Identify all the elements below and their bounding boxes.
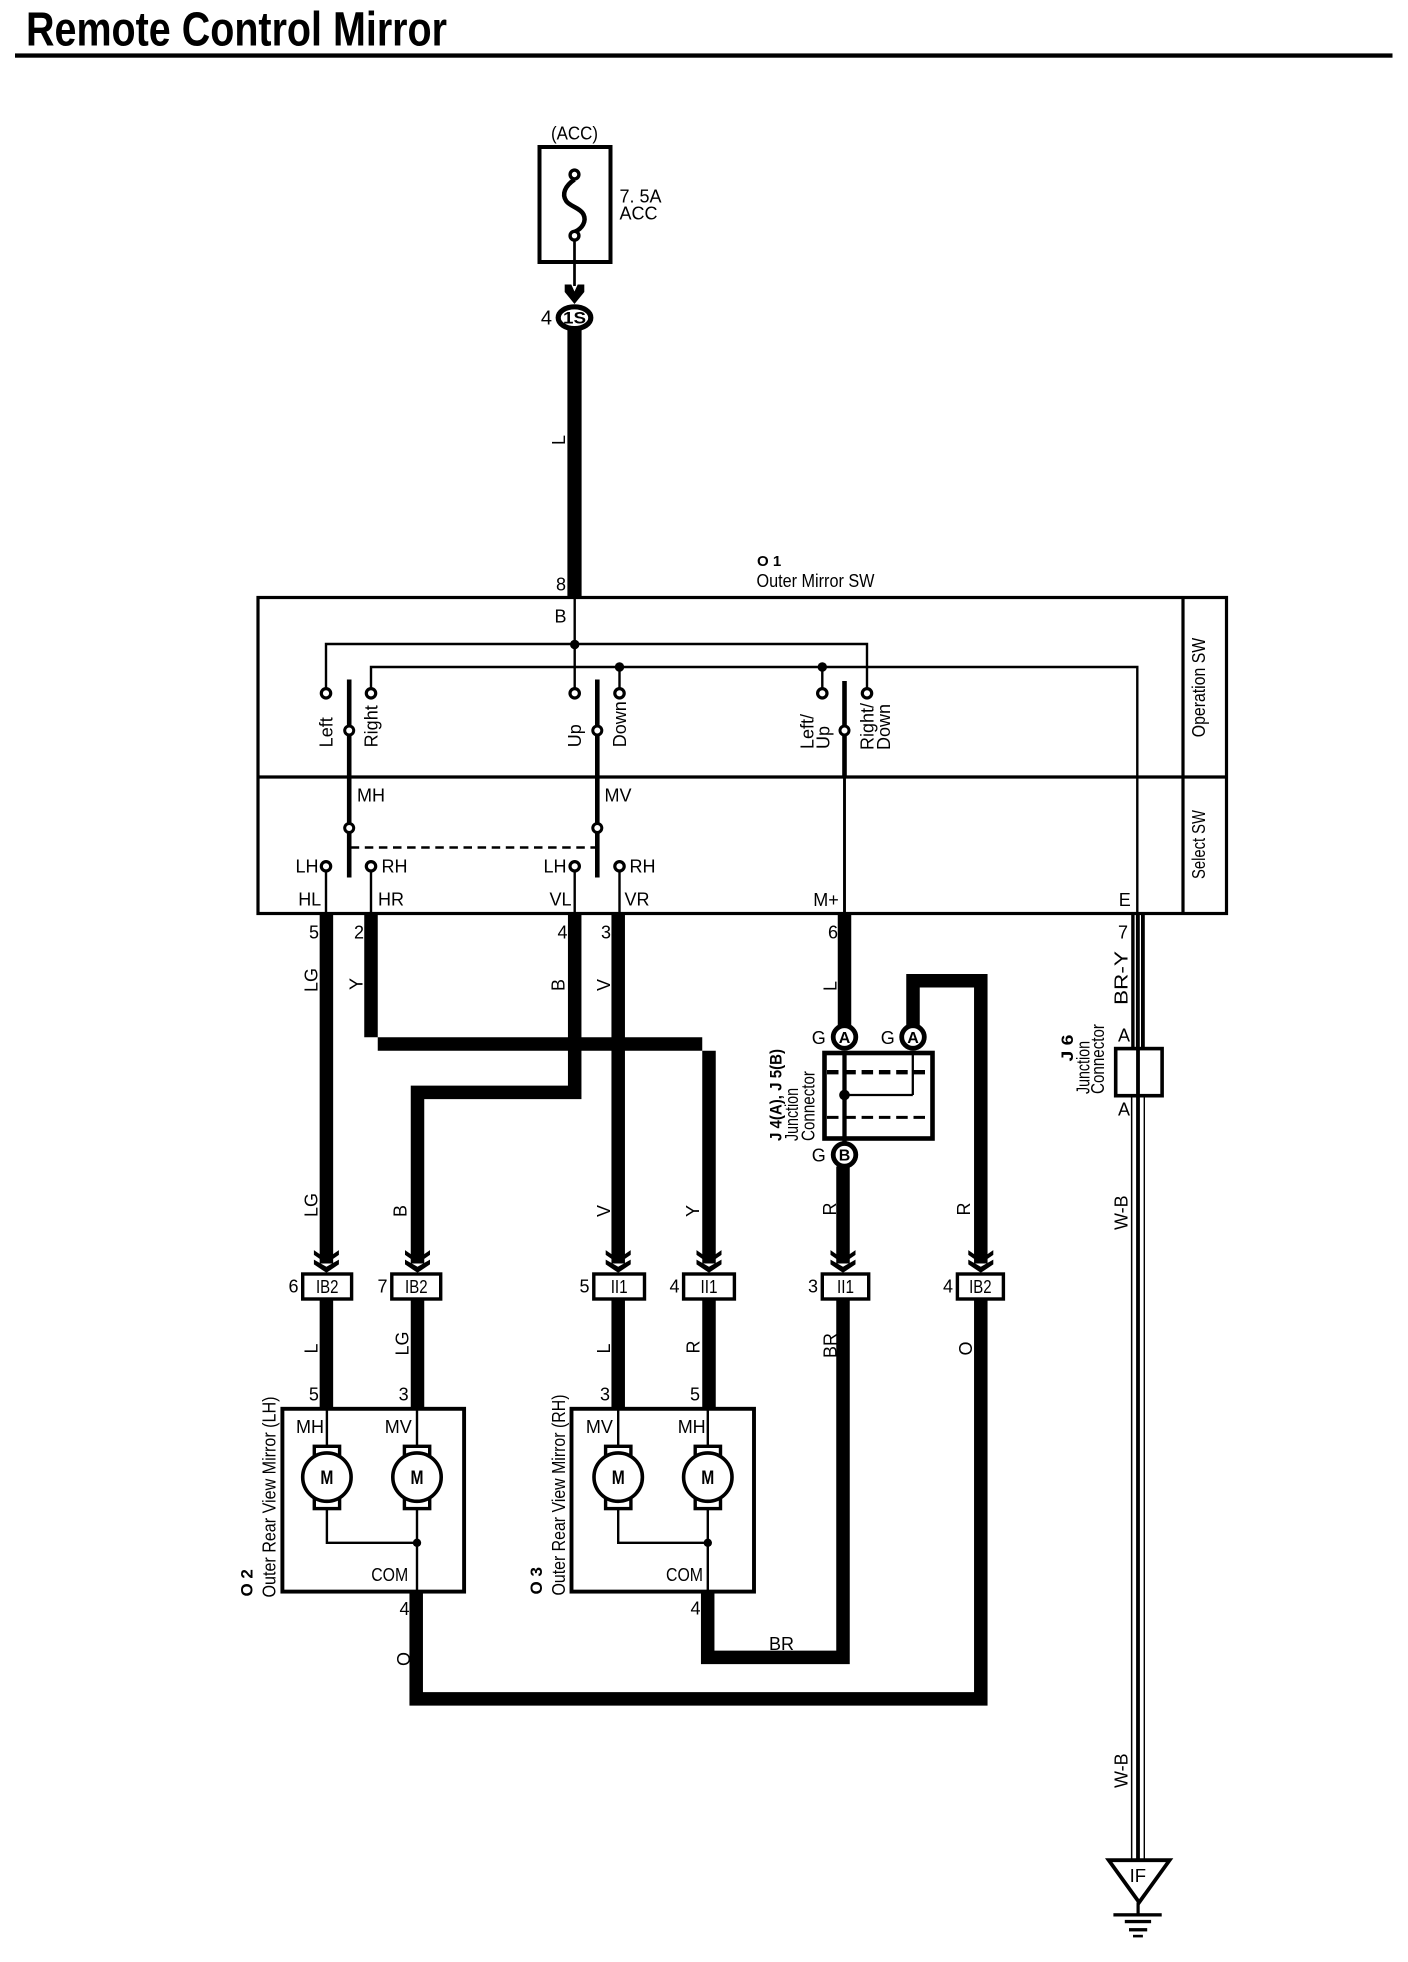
svg-text:B: B (554, 607, 566, 627)
select contact RH (HR) (366, 862, 375, 871)
wire LG from IB2-7 to LH mirror MV pin 3 (411, 1299, 425, 1409)
svg-text:G: G (812, 1146, 826, 1166)
switch pole M+ bar (842, 681, 847, 778)
svg-text:O 1: O 1 (757, 553, 781, 570)
junction connector J4(A) J5(B) (767, 1049, 933, 1143)
svg-text:5: 5 (579, 1277, 589, 1297)
svg-text:B: B (549, 979, 569, 991)
junction dot on B bus (570, 640, 579, 649)
svg-text:R: R (820, 1203, 840, 1216)
LH MV motor feed (416, 1409, 418, 1448)
wire Y from pin 2 to II1-4 (364, 914, 716, 1264)
svg-text:Up: Up (814, 726, 834, 749)
svg-text:B: B (839, 1148, 851, 1165)
svg-text:Connector: Connector (1088, 1024, 1108, 1094)
wire B bus upper (Left, Up, Right/Down) (326, 644, 867, 693)
svg-text:II1: II1 (701, 1277, 718, 1297)
switch O1 section divider (258, 775, 1227, 778)
svg-text:Outer Mirror SW: Outer Mirror SW (757, 571, 875, 591)
svg-text:BR-Y: BR-Y (1111, 951, 1131, 1005)
switch pole MH bar (347, 680, 352, 878)
svg-text:HR: HR (378, 890, 404, 910)
svg-text:R: R (954, 1203, 974, 1216)
wire L from II1-5 to RH mirror MV pin 3 (611, 1299, 625, 1409)
svg-text:MH: MH (296, 1417, 324, 1437)
svg-text:MV: MV (605, 786, 632, 806)
arrows into connector row (314, 1250, 339, 1273)
svg-text:R: R (683, 1341, 703, 1354)
svg-text:5: 5 (690, 1385, 700, 1405)
wire V from pin 3 to II1-5 (611, 914, 625, 1264)
wire O from IB2-4 down-left to LH mirror COM pin 4 (409, 1299, 987, 1706)
svg-text:BR: BR (769, 1634, 794, 1654)
ground IF (1109, 1860, 1170, 1937)
RH MH motor feed (707, 1409, 709, 1448)
svg-text:Left: Left (317, 717, 337, 747)
connector IB2 pin 6 (303, 1274, 352, 1299)
svg-text:MV: MV (586, 1417, 613, 1437)
svg-text:4: 4 (943, 1277, 953, 1297)
switch O1 outer box (258, 598, 1227, 914)
svg-text:A: A (1118, 1025, 1130, 1045)
svg-text:COM: COM (666, 1565, 703, 1585)
connector IB2 pin 7 (392, 1274, 441, 1299)
svg-text:HL: HL (298, 890, 321, 910)
svg-text:5: 5 (309, 923, 319, 943)
wire B bus lower (Right, Down, Left/Up, E) (371, 667, 1137, 914)
svg-text:Connector: Connector (798, 1071, 818, 1141)
svg-text:4: 4 (557, 923, 567, 943)
svg-text:Up: Up (565, 724, 585, 747)
wire R from II1-4 to RH mirror MH pin 5 (702, 1299, 716, 1409)
junction dot at Left/Up (818, 662, 827, 671)
svg-text:ACC: ACC (620, 204, 658, 224)
connector II1 pin 5 (594, 1274, 645, 1299)
LH MH motor feed (326, 1409, 328, 1448)
contact terminal Down (615, 689, 624, 698)
svg-text:A: A (1118, 1100, 1130, 1120)
svg-text:1S: 1S (563, 310, 586, 328)
svg-text:Outer Rear View Mirror (RH): Outer Rear View Mirror (RH) (549, 1395, 569, 1596)
svg-text:Select SW: Select SW (1189, 810, 1209, 879)
svg-text:M: M (411, 1468, 424, 1489)
svg-text:3: 3 (399, 1385, 409, 1405)
svg-text:4: 4 (690, 1599, 700, 1619)
switch O1 label column divider (1181, 598, 1184, 914)
svg-text:RH: RH (382, 857, 408, 877)
wire LG from pin 5 to IB2-6 (320, 914, 334, 1264)
svg-text:VR: VR (624, 890, 649, 910)
svg-text:II1: II1 (611, 1277, 628, 1297)
svg-text:MV: MV (385, 1417, 412, 1437)
svg-text:7: 7 (1118, 923, 1128, 943)
wire W-B from J6 to ground: twin strand (1131, 1049, 1145, 1860)
svg-text:O: O (394, 1652, 414, 1666)
svg-text:VL: VL (549, 890, 571, 910)
svg-text:M: M (320, 1468, 333, 1489)
svg-text:G: G (812, 1028, 826, 1048)
svg-text:LH: LH (295, 857, 318, 877)
junction pin A (left) (833, 1026, 856, 1049)
svg-text:L: L (594, 1343, 614, 1353)
motor M (LH horizontal) (303, 1446, 351, 1508)
svg-text:O 3: O 3 (527, 1567, 546, 1594)
svg-text:Down: Down (610, 701, 630, 747)
wire fuse to connector 1S (573, 241, 576, 287)
wire B from pin 4 to IB2-7 (411, 914, 582, 1264)
arrow into connector 1S (565, 285, 585, 305)
svg-text:8: 8 (556, 575, 566, 595)
svg-text:V: V (594, 1205, 614, 1217)
svg-text:3: 3 (600, 1385, 610, 1405)
RH COM wiring (618, 1508, 708, 1592)
svg-text:V: V (594, 979, 614, 991)
mirror O2 Outer Rear View Mirror (LH) (238, 1397, 464, 1598)
motor M (LH vertical) (393, 1446, 441, 1508)
svg-text:IB2: IB2 (316, 1277, 339, 1297)
wire BR from II1-3 down-left to RH mirror COM pin 4 (701, 1299, 850, 1664)
svg-text:5: 5 (309, 1385, 319, 1405)
svg-text:Remote Control Mirror: Remote Control Mirror (26, 4, 447, 57)
svg-text:BR: BR (821, 1333, 841, 1358)
svg-text:Down: Down (874, 704, 894, 750)
connector II1 pin 3 (822, 1274, 868, 1299)
contact terminal Left/Up (818, 689, 827, 698)
svg-text:(ACC): (ACC) (551, 124, 598, 144)
svg-text:B: B (390, 1205, 410, 1217)
title rule (15, 53, 1393, 57)
wire R from junction connector A to IB2-4 (906, 974, 987, 1264)
svg-text:6: 6 (828, 923, 838, 943)
wire L from pin 6 (M+) to junction connector A (838, 914, 852, 1028)
svg-text:LG: LG (301, 968, 321, 992)
svg-text:3: 3 (808, 1277, 818, 1297)
svg-text:3: 3 (601, 923, 611, 943)
contact terminal Up (570, 689, 579, 698)
svg-text:L: L (301, 1343, 321, 1353)
select contact RH (VR) (615, 862, 624, 871)
svg-text:Right: Right (362, 705, 382, 747)
junction pin A (right) (902, 1026, 925, 1049)
svg-text:G: G (881, 1028, 895, 1048)
ganged-switch dashed link (351, 846, 596, 848)
svg-text:II1: II1 (837, 1277, 854, 1297)
svg-text:4: 4 (541, 308, 552, 330)
select contact LH (VL) (570, 862, 579, 871)
wire BR-Y pin 7 (E) to J6: triple strand (1131, 914, 1145, 1049)
contact terminal Left (321, 689, 330, 698)
motor M (RH horizontal) (684, 1446, 732, 1508)
svg-text:IB2: IB2 (969, 1277, 992, 1297)
svg-text:6: 6 (288, 1277, 298, 1297)
connector II1 pin 4 (684, 1274, 735, 1299)
junction pin B (833, 1144, 856, 1167)
svg-text:W-B: W-B (1111, 1195, 1131, 1230)
svg-text:4: 4 (399, 1599, 409, 1619)
svg-text:E: E (1119, 890, 1131, 910)
svg-text:RH: RH (630, 857, 656, 877)
svg-text:MH: MH (357, 786, 385, 806)
svg-text:W-B: W-B (1111, 1753, 1131, 1788)
svg-text:A: A (839, 1030, 851, 1047)
svg-text:2: 2 (354, 923, 364, 943)
connector 1S pin 4 (541, 307, 591, 330)
mirror O3 Outer Rear View Mirror (RH) (527, 1395, 754, 1596)
select contact LH (HL) (321, 862, 330, 871)
RH MV motor feed (617, 1409, 619, 1448)
junction connector J6 (1058, 1024, 1162, 1120)
svg-text:7: 7 (377, 1277, 387, 1297)
svg-text:O 2: O 2 (238, 1569, 257, 1596)
fuse F1 7.5A ACC (540, 124, 662, 263)
svg-text:LG: LG (392, 1331, 412, 1355)
svg-text:M: M (701, 1468, 714, 1489)
svg-text:LH: LH (543, 857, 566, 877)
svg-text:M+: M+ (813, 890, 839, 910)
svg-text:Y: Y (347, 978, 367, 990)
svg-text:L: L (821, 981, 841, 991)
contact terminal Right/Down (862, 689, 871, 698)
contact terminal Right (366, 689, 375, 698)
svg-text:LG: LG (301, 1193, 321, 1217)
svg-text:O: O (956, 1341, 976, 1355)
LH COM wiring (327, 1508, 417, 1592)
svg-text:IF: IF (1130, 1865, 1146, 1886)
svg-text:Y: Y (683, 1205, 703, 1217)
svg-text:MH: MH (678, 1417, 706, 1437)
svg-text:Operation SW: Operation SW (1189, 638, 1209, 738)
wire R from junction connector B to II1-3 (836, 1167, 850, 1264)
svg-text:Outer Rear View Mirror (LH): Outer Rear View Mirror (LH) (260, 1397, 280, 1598)
svg-text:M: M (612, 1468, 625, 1489)
svg-text:A: A (907, 1030, 919, 1047)
connector IB2 pin 4 (957, 1274, 1003, 1299)
wire L (ACC feed to mirror switch pin 8) (567, 330, 581, 598)
motor M (RH vertical) (594, 1446, 642, 1508)
junction dot at Down (615, 662, 624, 671)
wire L from IB2-6 to LH mirror MH pin 5 (320, 1299, 334, 1409)
svg-text:L: L (549, 435, 569, 445)
svg-text:4: 4 (669, 1277, 679, 1297)
switch pole MV bar (595, 680, 600, 878)
svg-text:IB2: IB2 (405, 1277, 428, 1297)
svg-text:COM: COM (371, 1565, 408, 1585)
